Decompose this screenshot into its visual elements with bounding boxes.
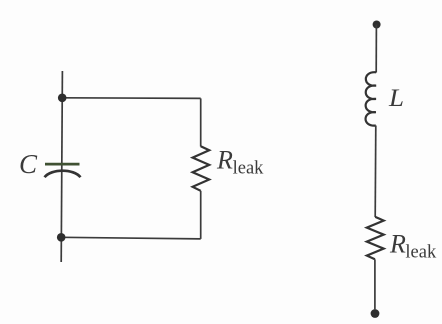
node dot: bottom terminal (right circuit) — [371, 309, 380, 318]
inductor L — [366, 72, 377, 125]
svg-text:R: R — [216, 146, 233, 175]
wire: bottom lead (right circuit) — [374, 259, 376, 309]
resistor R_leak (right circuit) — [367, 217, 384, 259]
svg-text:leak: leak — [233, 159, 265, 179]
node dot: top terminal (right circuit) — [373, 21, 381, 29]
wire: top horizontal — [62, 97, 201, 100]
capacitor C: flat top plate — [45, 163, 80, 166]
wire: bottom horizontal — [61, 237, 201, 239]
wire: right vertical lower (resistor to bottom) — [200, 191, 202, 239]
node dot: top-left junction — [58, 94, 67, 103]
svg-text:leak: leak — [405, 242, 437, 262]
resistor R_leak (left circuit) — [193, 146, 210, 191]
svg-text:L: L — [388, 85, 404, 112]
wire: left vertical (through capacitor), top tail to bottom tail — [61, 71, 62, 262]
wire: right vertical upper (to resistor) — [200, 98, 202, 146]
wire: middle lead (inductor to resistor) — [374, 126, 377, 218]
svg-text:R: R — [389, 229, 406, 258]
svg-text:C: C — [19, 149, 38, 179]
node dot: bottom-left junction — [57, 233, 66, 242]
capacitor C: curved bottom plate — [45, 171, 81, 178]
wire: top lead (right circuit) — [375, 25, 377, 73]
